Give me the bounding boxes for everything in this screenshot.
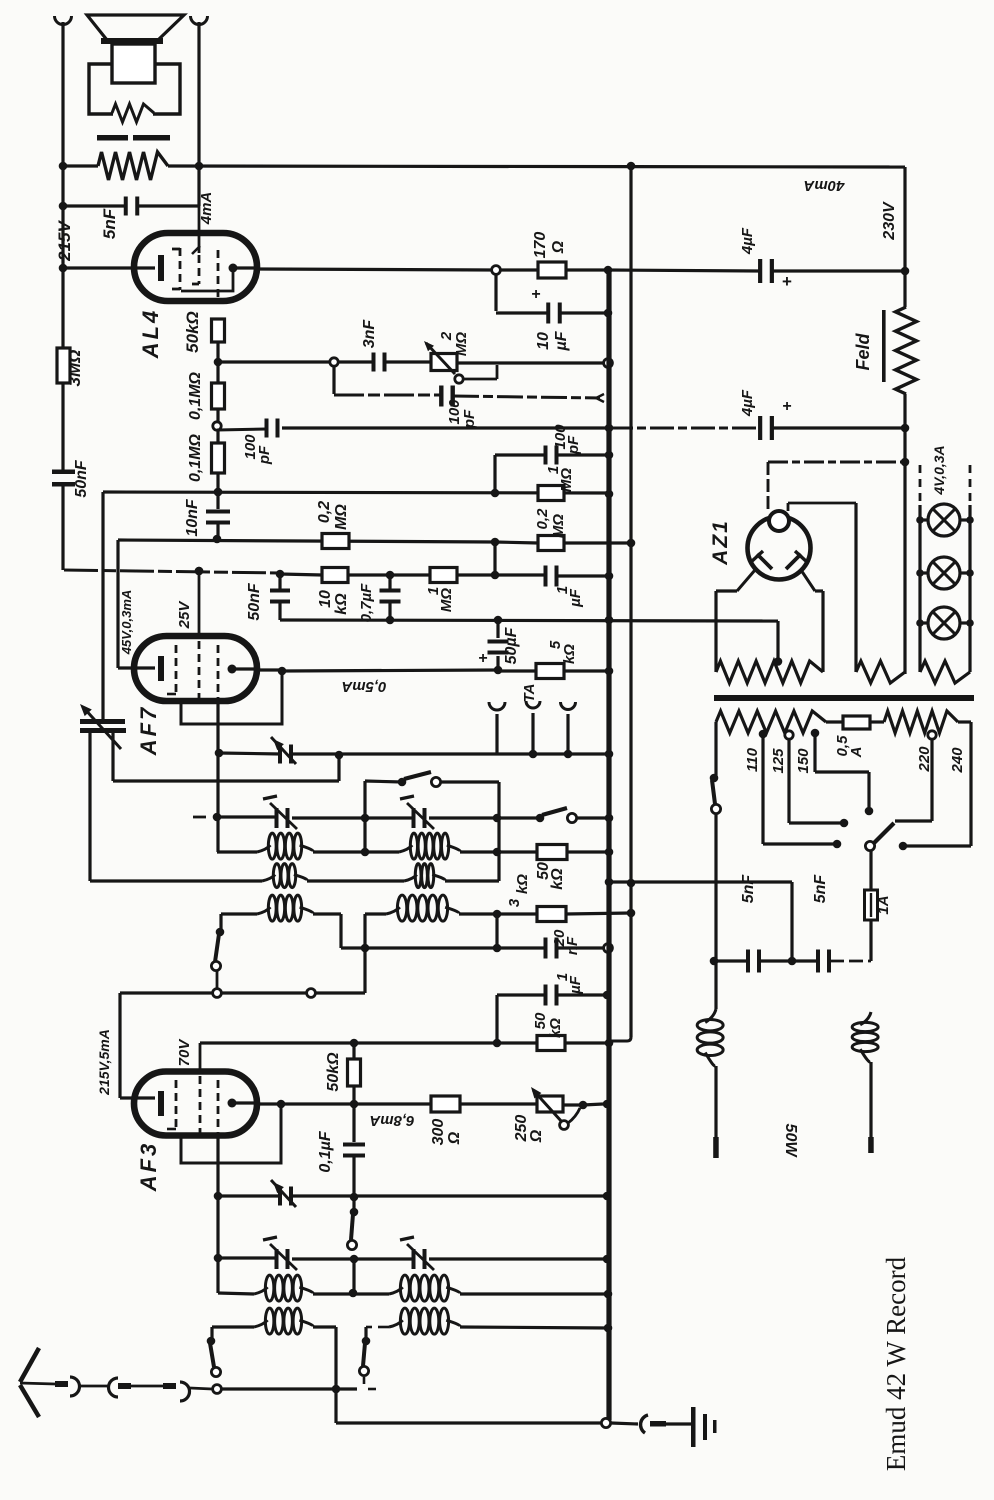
svg-text:pF: pF	[256, 445, 273, 465]
svg-text:TA: TA	[521, 684, 538, 703]
svg-text:nF: nF	[564, 936, 581, 955]
svg-text:AF7: AF7	[136, 705, 161, 757]
svg-text:215V: 215V	[55, 219, 74, 261]
svg-text:230V: 230V	[881, 201, 898, 241]
svg-text:50nF: 50nF	[246, 582, 263, 621]
svg-text:pF: pF	[565, 435, 582, 455]
svg-text:110: 110	[744, 747, 761, 772]
svg-text:125: 125	[770, 748, 787, 774]
svg-text:AF3: AF3	[136, 1141, 161, 1193]
svg-text:+: +	[782, 272, 792, 291]
svg-text:µF: µF	[567, 975, 584, 995]
svg-text:50kΩ: 50kΩ	[183, 311, 202, 353]
svg-text:kΩ: kΩ	[549, 868, 566, 890]
svg-text:5nF: 5nF	[812, 874, 829, 904]
svg-text:4µF: 4µF	[739, 389, 756, 417]
svg-text:45V,0,3mA: 45V,0,3mA	[119, 590, 134, 656]
svg-text:6,8mA: 6,8mA	[369, 1112, 414, 1129]
svg-text:pF: pF	[461, 409, 478, 429]
svg-text:0,1MΩ: 0,1MΩ	[187, 371, 204, 420]
svg-text:3MΩ: 3MΩ	[65, 350, 84, 387]
svg-text:A: A	[848, 747, 865, 759]
svg-text:0,2: 0,2	[316, 501, 333, 523]
svg-text:10: 10	[535, 332, 552, 350]
svg-text:10: 10	[317, 590, 334, 608]
svg-text:4mA: 4mA	[198, 192, 215, 226]
svg-text:Feld: Feld	[853, 333, 873, 371]
svg-text:µF: µF	[553, 330, 570, 351]
svg-text:150: 150	[795, 748, 812, 774]
svg-text:50kΩ: 50kΩ	[325, 1052, 342, 1092]
svg-text:1A: 1A	[875, 895, 892, 914]
svg-text:Ω: Ω	[528, 1129, 545, 1143]
svg-text:170: 170	[532, 232, 549, 259]
svg-text:kΩ: kΩ	[514, 874, 531, 894]
svg-text:0,1µF: 0,1µF	[317, 1130, 334, 1172]
svg-text:25V: 25V	[176, 600, 193, 630]
svg-text:AL4: AL4	[138, 308, 163, 360]
svg-text:300: 300	[430, 1119, 447, 1146]
svg-text:4µF: 4µF	[739, 227, 756, 255]
svg-text:Ω: Ω	[550, 240, 567, 254]
svg-text:0,7µF: 0,7µF	[358, 583, 375, 622]
svg-text:kΩ: kΩ	[547, 1018, 564, 1038]
svg-text:220: 220	[916, 746, 933, 773]
svg-text:50µF: 50µF	[503, 626, 520, 664]
svg-text:0,5mA: 0,5mA	[341, 678, 386, 695]
svg-text:50nF: 50nF	[73, 459, 90, 498]
svg-text:kΩ: kΩ	[561, 644, 578, 664]
svg-text:MΩ: MΩ	[333, 504, 350, 530]
svg-text:0,2: 0,2	[534, 508, 551, 530]
svg-text:10nF: 10nF	[184, 498, 201, 537]
svg-text:MΩ: MΩ	[550, 514, 567, 538]
svg-text:MΩ: MΩ	[438, 588, 455, 612]
svg-text:0,1MΩ: 0,1MΩ	[187, 433, 204, 482]
svg-text:+: +	[478, 650, 487, 667]
svg-text:3: 3	[506, 898, 523, 907]
svg-text:240: 240	[949, 747, 966, 774]
svg-text:215V,5mA: 215V,5mA	[96, 1029, 112, 1096]
svg-text:µF: µF	[567, 588, 584, 608]
svg-text:+: +	[782, 398, 791, 415]
svg-text:Ω: Ω	[446, 1131, 463, 1145]
svg-text:3nF: 3nF	[361, 319, 378, 349]
svg-text:5nF: 5nF	[100, 208, 119, 239]
svg-text:50W: 50W	[782, 1124, 799, 1159]
svg-text:+: +	[531, 286, 540, 303]
svg-text:Emud 42 W Record: Emud 42 W Record	[881, 1256, 911, 1471]
svg-text:MΩ: MΩ	[453, 332, 470, 356]
svg-text:5nF: 5nF	[740, 874, 757, 904]
svg-text:70V: 70V	[176, 1038, 193, 1067]
svg-text:AZ1: AZ1	[709, 519, 732, 566]
svg-text:kΩ: kΩ	[333, 593, 350, 615]
svg-text:4V,0,3A: 4V,0,3A	[931, 445, 947, 495]
svg-text:MΩ: MΩ	[558, 468, 575, 492]
svg-text:40mA: 40mA	[804, 177, 846, 194]
